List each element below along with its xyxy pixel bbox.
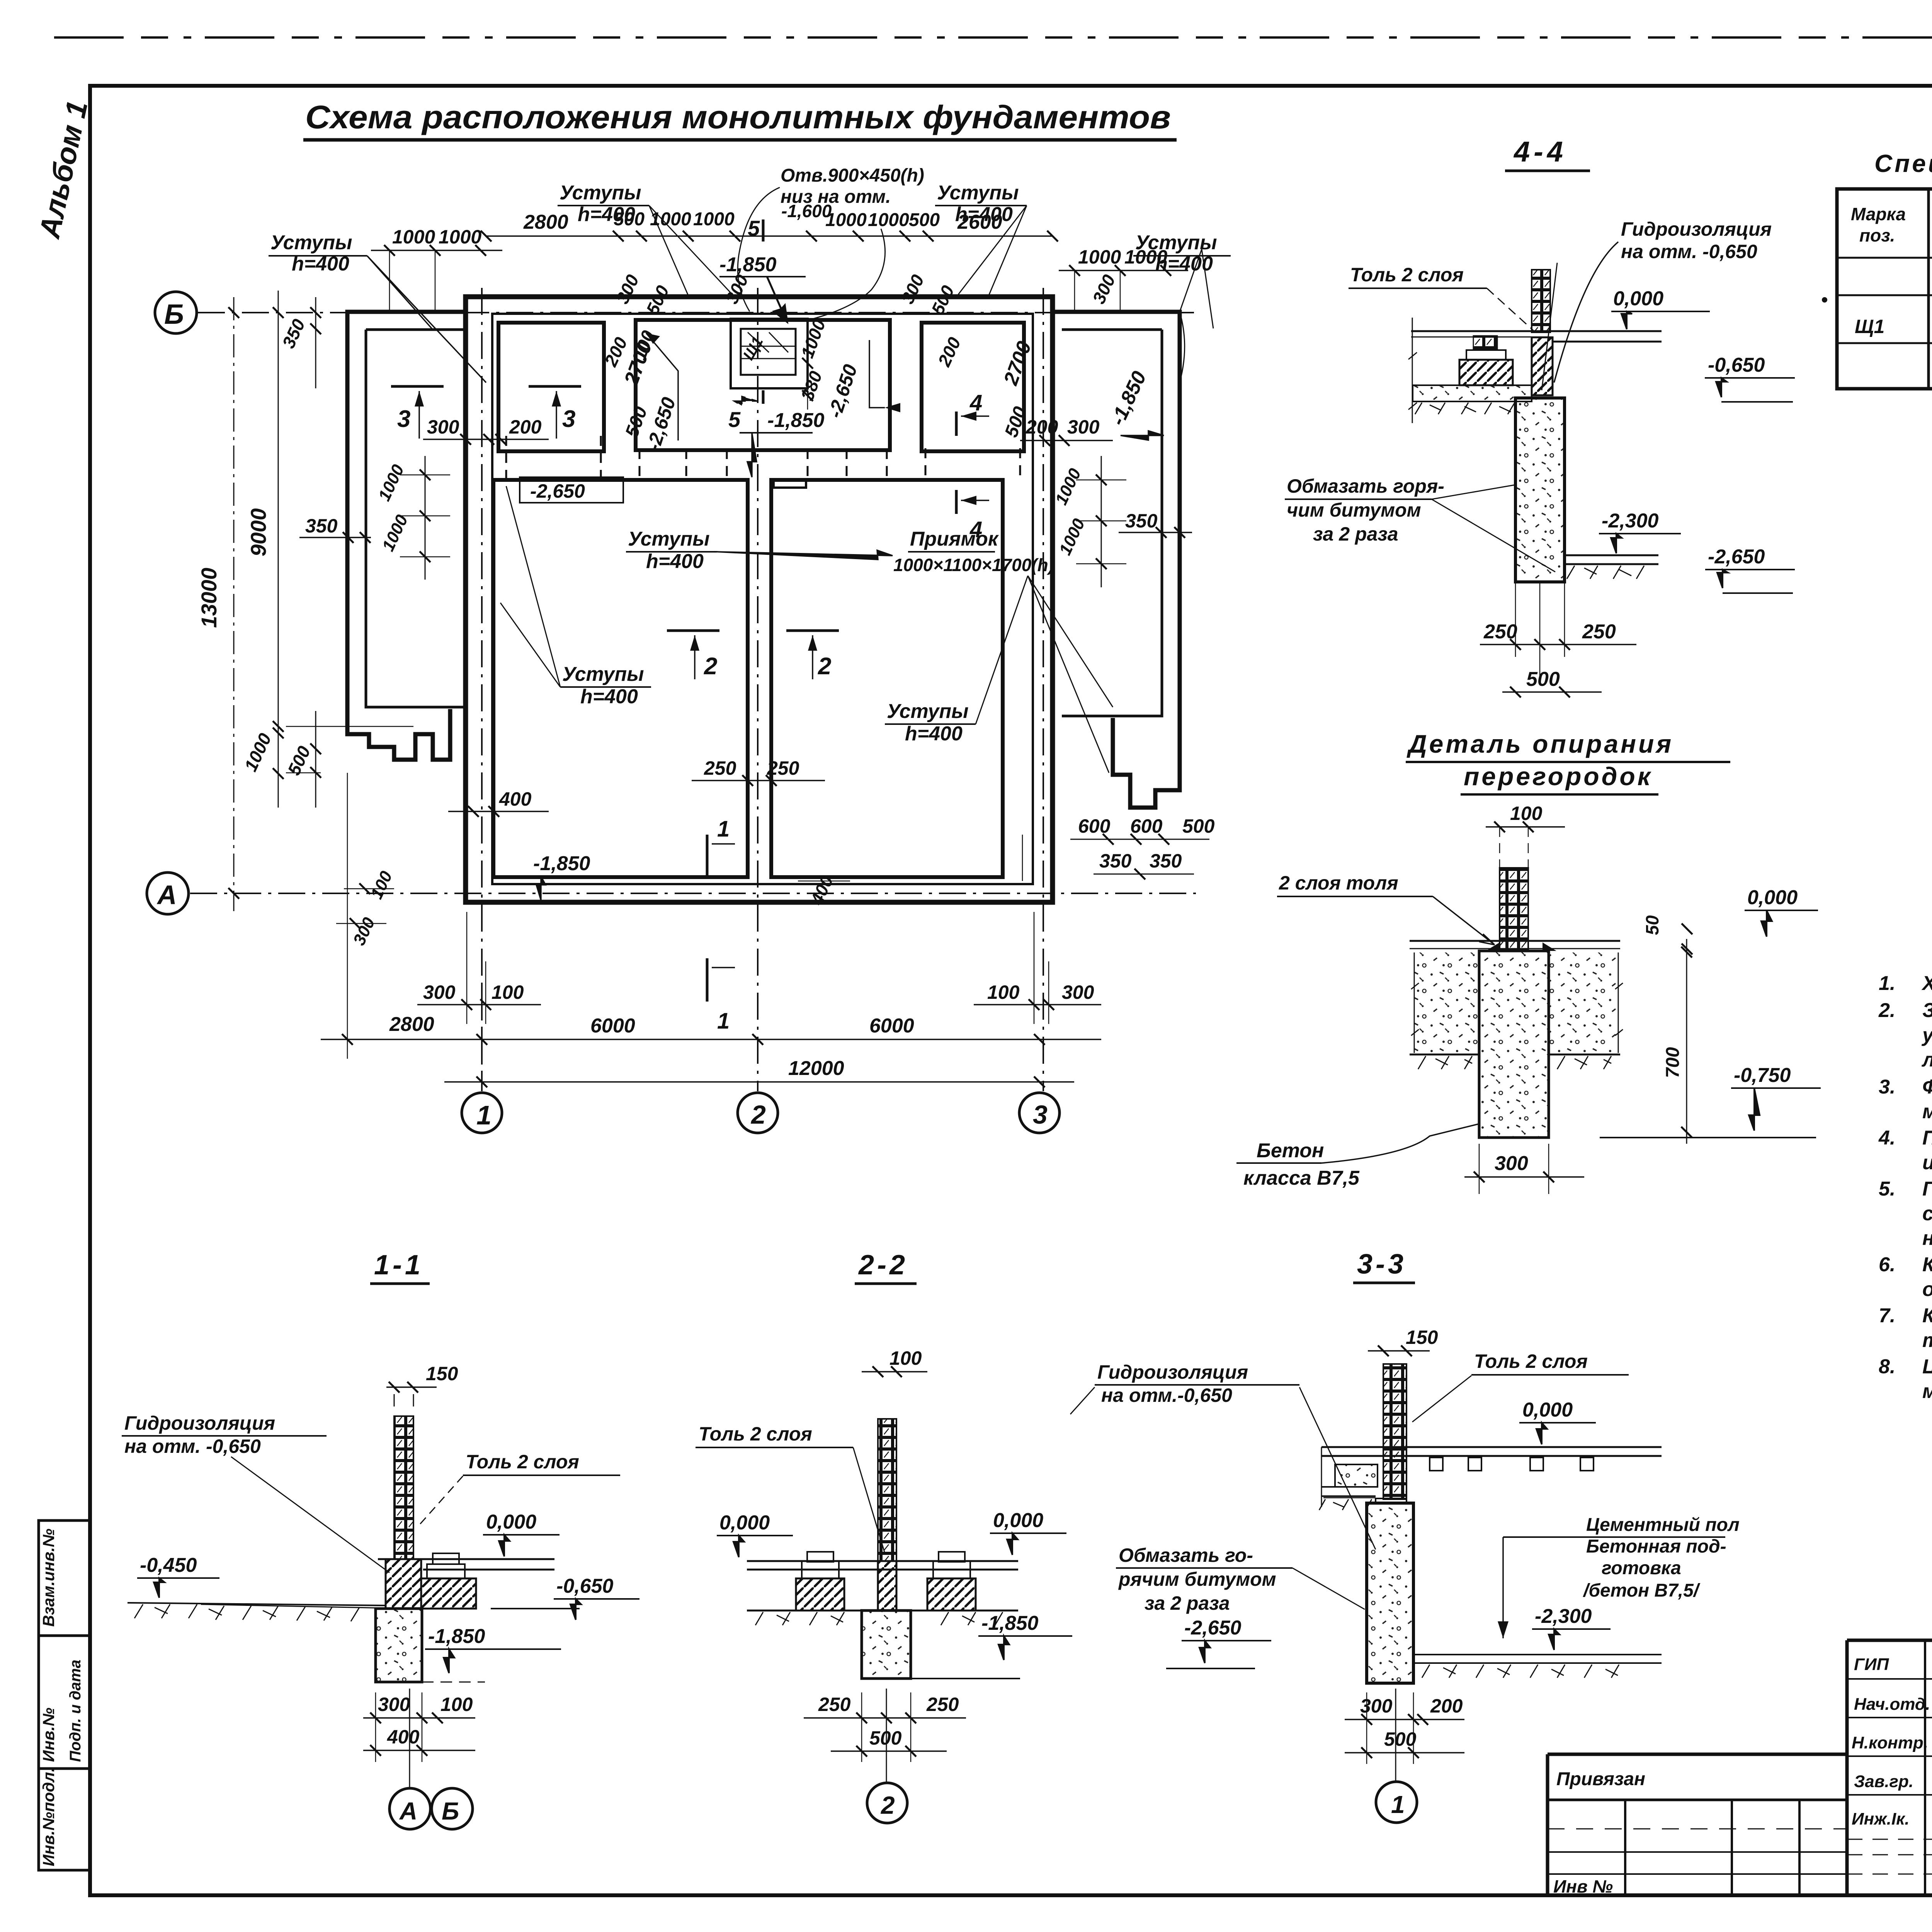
svg-text:2 слоя толя: 2 слоя толя: [1279, 872, 1398, 894]
floor slab lines: [378, 1559, 554, 1570]
svg-text:1000: 1000: [868, 210, 909, 230]
brick pier: [1383, 1364, 1406, 1499]
svg-text:100: 100: [1510, 803, 1543, 824]
svg-text:500: 500: [1384, 1728, 1417, 1750]
dim 350 top left: [315, 297, 316, 388]
svg-text:обмазать горячим битумом за: обмазать горячим битумом за 2 раза.: [1922, 1278, 1932, 1301]
svg-text:0,000: 0,000: [1522, 1399, 1573, 1421]
svg-text:/бетон В7,5/: /бетон В7,5/: [1583, 1580, 1701, 1601]
svg-text:2: 2: [818, 653, 831, 680]
svg-text:100: 100: [889, 1347, 922, 1369]
section mark 4 in room right: [955, 490, 958, 514]
svg-text:-1,850: -1,850: [981, 1612, 1039, 1634]
svg-text:600: 600: [1078, 815, 1111, 837]
grid axis 3 dash-dot line: [1043, 288, 1044, 1091]
brick pier above floor: [1532, 270, 1550, 332]
svg-text:-1,850: -1,850: [533, 852, 590, 875]
grid bubble A: [147, 872, 189, 914]
svg-text:Цоколь выкладывать из полнот: Цоколь выкладывать из полнотелого кирпич…: [1922, 1355, 1932, 1378]
svg-text:Н.контр.: Н.контр.: [1852, 1733, 1928, 1752]
svg-text:12000: 12000: [788, 1057, 844, 1080]
dim 1000 / 500 lower left: [278, 676, 316, 808]
svg-text:на отм. -0,650: на отм. -0,650: [124, 1435, 261, 1457]
svg-text:1: 1: [1391, 1791, 1405, 1818]
svg-text:Уступы: Уступы: [270, 231, 352, 254]
svg-text:0,000: 0,000: [1747, 886, 1798, 909]
svg-text:150: 150: [1406, 1327, 1438, 1348]
svg-text:Обмазать го-: Обмазать го-: [1119, 1544, 1253, 1566]
svg-text:-1,850: -1,850: [719, 253, 777, 276]
svg-text:Уступы: Уступы: [887, 700, 969, 723]
svg-text:250: 250: [818, 1694, 851, 1715]
wood beam hatched: [1459, 360, 1513, 385]
grid bubble 3: [1019, 1093, 1060, 1133]
svg-text:4-4: 4-4: [1513, 136, 1567, 168]
svg-text:9000: 9000: [246, 508, 270, 556]
svg-text:0,000: 0,000: [486, 1511, 536, 1533]
wedges at pier base: [1486, 942, 1556, 951]
foundation column: [376, 1609, 422, 1682]
svg-text:h=400: h=400: [955, 203, 1013, 226]
section mark 3 in left wing: [391, 385, 444, 388]
svg-text:-2,650: -2,650: [1708, 546, 1765, 568]
svg-text:250: 250: [1483, 621, 1517, 643]
svg-text:Уступы: Уступы: [560, 182, 641, 204]
svg-text:200: 200: [1430, 1695, 1463, 1717]
svg-text:Обмазать горя-: Обмазать горя-: [1287, 475, 1444, 497]
svg-text:-2,300: -2,300: [1535, 1605, 1592, 1628]
svg-text:Отв.900×450(h): Отв.900×450(h): [781, 165, 924, 186]
hatched wall below floor: [386, 1559, 421, 1609]
svg-text:готовка: готовка: [1602, 1558, 1681, 1578]
svg-text:600: 600: [1130, 815, 1163, 837]
svg-text:телого кирпича марки 75 на: телого кирпича марки 75 на растворе марк…: [1922, 1329, 1932, 1352]
grid bubbles A B: [410, 1689, 410, 1788]
concrete prep strip: [1413, 385, 1532, 401]
floor slab lines: [747, 1561, 1018, 1570]
svg-text:на отм.-0,650: на отм.-0,650: [1101, 1384, 1232, 1406]
lower slab right: [1413, 1655, 1662, 1663]
svg-text:Б: Б: [442, 1797, 459, 1825]
svg-text:500: 500: [1526, 668, 1560, 690]
svg-text:-0,650: -0,650: [1708, 354, 1765, 376]
svg-text:4: 4: [969, 517, 982, 542]
svg-text:-2,650: -2,650: [1184, 1617, 1242, 1639]
ground hatch under prep: [1415, 403, 1515, 414]
svg-text:300: 300: [1360, 1695, 1393, 1717]
spec table grid: [1837, 189, 1932, 389]
svg-text:2: 2: [704, 653, 717, 680]
svg-text:А: А: [156, 880, 177, 910]
svg-text:слоя цементного раствора со: слоя цементного раствора состава 1:2 тол…: [1922, 1202, 1932, 1225]
svg-text:Приямок: Приямок: [910, 528, 999, 550]
foundation column: [1479, 951, 1549, 1138]
beams and hatched blocks: [796, 1578, 844, 1611]
section mark 4 in R3: [955, 412, 958, 436]
sheet top edge dash line: [54, 36, 1932, 39]
svg-text:100: 100: [440, 1694, 473, 1715]
svg-text:Инв №: Инв №: [1553, 1876, 1613, 1896]
svg-text:А: А: [399, 1797, 417, 1825]
bottom line and ground: [747, 1610, 1018, 1612]
svg-text:1000: 1000: [439, 226, 481, 248]
svg-text:300: 300: [1495, 1152, 1528, 1175]
svg-text:-1,600: -1,600: [781, 201, 832, 221]
svg-text:350: 350: [1150, 850, 1182, 872]
svg-text:Гидроизоляция: Гидроизоляция: [124, 1412, 275, 1434]
svg-text:350: 350: [305, 515, 338, 537]
svg-text:Цементный пол: Цементный пол: [1586, 1515, 1740, 1535]
floor slab: [1321, 1447, 1662, 1456]
section mark 2 right: [786, 629, 839, 632]
break line left: [1408, 318, 1417, 423]
left side stamp column: [39, 1520, 90, 1870]
svg-text:Привязан: Привязан: [1556, 1769, 1645, 1789]
left wing outer wall: [347, 312, 466, 760]
svg-text:250: 250: [704, 757, 736, 779]
svg-text:2800: 2800: [389, 1013, 434, 1036]
svg-text:Бетонная под-: Бетонная под-: [1586, 1536, 1726, 1557]
svg-text:4: 4: [969, 390, 982, 415]
ground line: [128, 1603, 386, 1605]
svg-text:7.: 7.: [1879, 1304, 1895, 1327]
svg-text:6000: 6000: [590, 1015, 635, 1037]
svg-text:-1,850: -1,850: [767, 409, 825, 432]
svg-text:-2,300: -2,300: [1602, 510, 1659, 532]
svg-text:350: 350: [1099, 850, 1132, 872]
svg-text:Характеристику грунтов см.: Характеристику грунтов см. КД-1.: [1921, 972, 1932, 995]
top middle room R2: [636, 320, 890, 450]
grid axis 2 dash-dot line: [757, 288, 759, 1091]
svg-text:Уступы: Уступы: [628, 528, 710, 550]
svg-text:400: 400: [387, 1726, 420, 1748]
svg-text:1: 1: [476, 1100, 492, 1130]
svg-text:1000: 1000: [1078, 246, 1121, 268]
svg-text:Схема расположения монолитных: Схема расположения монолитных фундаменто…: [305, 99, 1171, 135]
svg-text:марки 200, бетон класса В7: марки 200, бетон класса В7,5).: [1922, 1100, 1932, 1123]
dashed step connectors under top rooms: [506, 436, 1020, 479]
svg-text:ной 30мм.: ной 30мм.: [1922, 1227, 1932, 1250]
left privyazan block: [1548, 1754, 1847, 1895]
central block inner wall line: [492, 314, 1033, 884]
svg-text:поз.: поз.: [1859, 225, 1895, 245]
svg-text:из щебня толщиной 100мм.: из щебня толщиной 100мм.: [1922, 1151, 1932, 1174]
svg-text:лютной отм.: лютной отм.: [1921, 1049, 1932, 1071]
left wing inner wall: [366, 330, 464, 707]
grid axis 1 dash-dot line: [481, 288, 483, 1091]
svg-text:Толь 2 слоя: Толь 2 слоя: [466, 1451, 579, 1473]
grid bubble 1: [462, 1093, 502, 1133]
svg-text:Уступы: Уступы: [562, 663, 644, 685]
svg-text:Зав.гр.: Зав.гр.: [1854, 1772, 1913, 1791]
svg-text:Уступы: Уступы: [937, 182, 1019, 204]
dim line 13000: [233, 297, 235, 911]
left sub floor: [1321, 1487, 1378, 1496]
svg-text:ГИП: ГИП: [1854, 1655, 1889, 1674]
svg-text:500: 500: [869, 1727, 902, 1749]
central block outer wall: [466, 297, 1053, 902]
svg-text:1.: 1.: [1879, 972, 1895, 995]
svg-text:1: 1: [717, 816, 730, 842]
svg-text:Нач.отд.: Нач.отд.: [1854, 1695, 1930, 1714]
svg-text:За относительную отметку 0,000: За относительную отметку 0,000 условно п…: [1922, 999, 1932, 1022]
grid bubble 1: [1395, 1689, 1396, 1781]
svg-text:8.: 8.: [1879, 1355, 1895, 1378]
section mark 2 left: [667, 629, 719, 632]
svg-text:6000: 6000: [869, 1015, 914, 1037]
top small room R1: [498, 323, 604, 451]
svg-text:0,000: 0,000: [719, 1512, 770, 1534]
svg-text:2: 2: [881, 1791, 895, 1819]
foundation column: [862, 1611, 911, 1679]
svg-text:за 2 раза: за 2 раза: [1145, 1592, 1230, 1614]
brick wall pier: [394, 1416, 413, 1559]
middle signatures block: [1847, 1640, 1932, 1895]
ground line: [1410, 1054, 1620, 1056]
grid bubble 2: [738, 1093, 778, 1133]
svg-text:Б: Б: [164, 299, 184, 330]
svg-text:350: 350: [1125, 510, 1158, 532]
svg-text:300: 300: [378, 1694, 410, 1715]
svg-text:Гидроизоляция: Гидроизоляция: [1621, 218, 1772, 240]
svg-text:2.: 2.: [1878, 999, 1895, 1022]
svg-text:500: 500: [1182, 815, 1215, 837]
svg-text:3-3: 3-3: [1357, 1249, 1406, 1280]
grid axis A dash-dot line: [190, 893, 1196, 894]
svg-text:2: 2: [750, 1100, 766, 1129]
svg-text:Толь 2 слоя: Толь 2 слоя: [1474, 1350, 1588, 1372]
section mark 1 in room left: [706, 835, 709, 878]
svg-text:2-2: 2-2: [858, 1250, 908, 1281]
top small room R3: [922, 323, 1024, 451]
svg-text:Взам.инв.№: Взам.инв.№: [39, 1529, 58, 1627]
surrounding concrete speck: [1414, 952, 1479, 1053]
svg-text:чим битумом: чим битумом: [1287, 499, 1421, 521]
svg-text:Спецификация к схеме располо: Спецификация к схеме расположения: [1874, 150, 1932, 177]
svg-text:13000: 13000: [197, 568, 221, 628]
break squiggles: [1411, 952, 1623, 1053]
svg-text:h=400: h=400: [646, 550, 704, 573]
svg-text:Гидроизоляция стен на отм.: Гидроизоляция стен на отм. -0,650 состои…: [1922, 1178, 1932, 1200]
svg-text:0,000: 0,000: [993, 1509, 1043, 1532]
section mark 1 below plan: [706, 958, 709, 1002]
svg-text:700: 700: [1663, 1047, 1683, 1078]
leader from priamok to wing: [1028, 576, 1113, 773]
priamok pit step on room right top: [774, 479, 806, 488]
svg-text:300: 300: [427, 416, 459, 438]
svg-text:Гидроизоляция: Гидроизоляция: [1097, 1361, 1248, 1383]
dim 700: [1686, 939, 1687, 1144]
main top chain: [486, 235, 1053, 237]
grid bubble 2: [886, 1689, 887, 1782]
svg-text:5: 5: [728, 407, 741, 432]
foundation column big: [1367, 1503, 1413, 1683]
svg-text:1000: 1000: [392, 226, 435, 248]
grid bubble B: [155, 292, 197, 333]
svg-text:-0,450: -0,450: [140, 1554, 197, 1577]
svg-text:1: 1: [717, 1009, 730, 1034]
hatched wall zone: [1532, 337, 1553, 395]
floor slab lines: [1411, 331, 1662, 342]
shield Sch1 nested squares: [731, 319, 808, 388]
svg-text:-0,750: -0,750: [1734, 1064, 1791, 1087]
svg-text:на отм. -0,650: на отм. -0,650: [1621, 241, 1757, 262]
svg-text:за 2 раза: за 2 раза: [1313, 523, 1398, 545]
svg-text:400: 400: [499, 788, 532, 810]
svg-text:Кирпичные стены приямка вык: Кирпичные стены приямка выкладывать из п…: [1922, 1304, 1932, 1327]
svg-text:марки 100 на растворе марк: марки 100 на растворе марки 50.: [1922, 1380, 1932, 1403]
lower floor slab: [1565, 555, 1658, 564]
brick partition pier: [878, 1419, 896, 1561]
dim 1000 1000 inside left wing: [425, 456, 426, 580]
svg-text:перегородок: перегородок: [1464, 762, 1653, 791]
svg-text:Марка: Марка: [1851, 204, 1906, 224]
svg-text:300: 300: [1067, 416, 1100, 438]
ground hatch lower: [1567, 566, 1644, 579]
svg-text:Толь 2 слоя: Толь 2 слоя: [699, 1423, 812, 1445]
svg-text:250: 250: [1582, 621, 1616, 643]
svg-text:3.: 3.: [1879, 1076, 1895, 1098]
foundation column: [1515, 398, 1565, 582]
floor line: [1410, 940, 1620, 942]
svg-text:1000: 1000: [693, 209, 735, 230]
svg-text:Деталь опирания: Деталь опирания: [1406, 730, 1673, 758]
svg-text:4.: 4.: [1878, 1127, 1895, 1149]
svg-text:уровень чистого пола, что: уровень чистого пола, что соответствует …: [1921, 1024, 1932, 1046]
svg-text:500: 500: [909, 210, 940, 230]
svg-text:h=400: h=400: [905, 723, 963, 745]
room right: [771, 480, 1003, 877]
box -2,650 under R1: [520, 477, 623, 503]
svg-text:Инв.№подл.: Инв.№подл.: [39, 1767, 58, 1866]
svg-text:3: 3: [562, 406, 575, 432]
svg-text:рячим битумом: рячим битумом: [1118, 1568, 1276, 1590]
section mark 3 in R1: [529, 385, 581, 388]
svg-text:Кирпичные стены, соприкасающ: Кирпичные стены, соприкасающиеся с грунт…: [1922, 1253, 1932, 1276]
svg-text:0,000: 0,000: [1613, 287, 1663, 310]
svg-text:200: 200: [509, 416, 542, 438]
svg-text:100: 100: [492, 981, 524, 1003]
svg-text:Толь 2 слоя: Толь 2 слоя: [1350, 264, 1464, 286]
svg-text:-1,850: -1,850: [428, 1625, 485, 1648]
svg-text:250: 250: [926, 1694, 959, 1715]
svg-text:200: 200: [1026, 416, 1058, 438]
right wing outer wall: [1053, 312, 1180, 808]
svg-text:Подп. и дата: Подп. и дата: [67, 1660, 84, 1762]
svg-text:-2,650: -2,650: [530, 480, 585, 502]
svg-text:-0,650: -0,650: [556, 1575, 614, 1597]
svg-text:150: 150: [426, 1363, 458, 1384]
400 dim right room bottom: [1022, 835, 1023, 881]
svg-text:1000: 1000: [650, 209, 691, 230]
svg-text:6.: 6.: [1879, 1253, 1895, 1276]
svg-text:Инж.Iк.: Инж.Iк.: [1852, 1810, 1910, 1828]
grid axis B dash-dot line: [198, 312, 1196, 313]
dim line 9000: [278, 291, 279, 798]
svg-text:5.: 5.: [1879, 1178, 1895, 1200]
svg-text:Бетон: Бетон: [1257, 1139, 1324, 1162]
svg-text:Фундаменты выполняются из б: Фундаменты выполняются из бутобетона ( б…: [1922, 1076, 1932, 1098]
svg-text:3: 3: [1033, 1100, 1048, 1129]
room left: [493, 480, 748, 877]
svg-text:h=400: h=400: [578, 203, 635, 226]
svg-text:1-1: 1-1: [374, 1250, 423, 1281]
svg-text:Под все фундаменты устраивае: Под все фундаменты устраивается подготов…: [1922, 1127, 1932, 1149]
svg-text:класса В7,5: класса В7,5: [1243, 1167, 1360, 1189]
svg-text:Уступы: Уступы: [1135, 231, 1217, 254]
svg-text:Щ1: Щ1: [1855, 316, 1884, 337]
brick partition pier: [1500, 868, 1528, 949]
svg-text:3: 3: [397, 406, 410, 432]
svg-text:100: 100: [987, 981, 1020, 1003]
svg-text:300: 300: [423, 981, 456, 1003]
svg-text:1000×1100×1700(h): 1000×1100×1700(h): [893, 555, 1054, 575]
svg-text:50: 50: [1642, 915, 1662, 935]
right wing inner wall: [1062, 330, 1162, 716]
svg-text:h=400: h=400: [580, 685, 638, 708]
dim 1000 1000 inside right wing: [1101, 456, 1102, 587]
svg-text:250: 250: [767, 757, 799, 779]
svg-text:2800: 2800: [523, 211, 568, 233]
svg-text:300: 300: [1062, 981, 1094, 1003]
svg-text:Инв.№: Инв.№: [39, 1708, 58, 1762]
